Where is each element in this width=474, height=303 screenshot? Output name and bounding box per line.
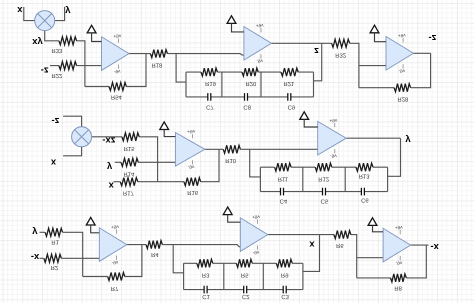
svg-text:C6: C6 [361, 197, 369, 204]
svg-text:-9v: -9v [253, 250, 260, 255]
svg-text:-x: -x [431, 242, 440, 253]
svg-text:x: x [309, 239, 315, 250]
svg-text:R5: R5 [241, 271, 249, 278]
svg-text:x: x [109, 180, 115, 191]
svg-text:R17: R17 [123, 190, 134, 197]
svg-text:R22: R22 [51, 72, 62, 79]
svg-text:R28: R28 [397, 96, 409, 103]
svg-text:R11: R11 [278, 176, 288, 183]
svg-text:-z: -z [41, 66, 49, 77]
svg-text:+9v: +9v [252, 215, 260, 220]
svg-text:R14: R14 [123, 171, 135, 178]
svg-text:x: x [51, 157, 57, 168]
svg-text:R2: R2 [51, 264, 59, 271]
svg-text:R21: R21 [283, 80, 294, 87]
svg-text:y: y [65, 6, 71, 17]
svg-text:+9v: +9v [187, 129, 195, 134]
svg-text:y: y [32, 227, 38, 238]
svg-text:-z: -z [428, 33, 436, 44]
svg-text:R33: R33 [51, 47, 63, 54]
svg-text:C8: C8 [243, 104, 251, 111]
svg-text:R12: R12 [318, 176, 329, 183]
svg-text:-9v: -9v [256, 59, 263, 64]
svg-text:R19: R19 [205, 80, 216, 87]
svg-text:y: y [405, 135, 411, 146]
svg-text:-9v: -9v [112, 260, 119, 265]
svg-text:C5: C5 [321, 198, 329, 205]
svg-text:R20: R20 [245, 80, 257, 87]
svg-text:z: z [314, 46, 319, 57]
svg-text:-9v: -9v [330, 154, 337, 159]
svg-text:C4: C4 [280, 198, 288, 205]
svg-text:C1: C1 [202, 293, 210, 300]
svg-text:C7: C7 [206, 104, 214, 111]
svg-text:+9v: +9v [330, 118, 338, 123]
svg-text:R18: R18 [151, 62, 163, 69]
svg-text:R13: R13 [359, 172, 371, 179]
svg-text:R1: R1 [51, 238, 59, 245]
svg-text:+9v: +9v [256, 23, 264, 28]
svg-text:+9v: +9v [111, 225, 119, 230]
svg-text:R32: R32 [335, 51, 346, 58]
svg-text:y: y [107, 162, 113, 173]
svg-text:R8: R8 [394, 285, 402, 292]
svg-text:R6: R6 [336, 242, 344, 249]
svg-text:-z: -z [51, 116, 59, 127]
svg-text:xy: xy [32, 37, 43, 48]
svg-text:+9v: +9v [398, 33, 406, 38]
svg-text:R9: R9 [281, 271, 289, 278]
svg-text:R15: R15 [124, 145, 136, 152]
svg-text:-9v: -9v [396, 260, 403, 265]
svg-text:-9v: -9v [114, 69, 121, 74]
svg-text:-x: -x [31, 252, 40, 263]
svg-text:R7: R7 [111, 285, 119, 292]
svg-text:C3: C3 [281, 293, 289, 300]
svg-text:-9v: -9v [188, 165, 195, 170]
svg-text:-xz: -xz [102, 135, 115, 146]
svg-text:x: x [17, 5, 23, 16]
svg-text:C9: C9 [288, 104, 296, 111]
svg-text:+9v: +9v [113, 34, 121, 39]
svg-text:R10: R10 [225, 157, 237, 164]
svg-text:R16: R16 [187, 189, 199, 196]
svg-text:R54: R54 [111, 93, 123, 100]
svg-text:C2: C2 [242, 293, 250, 300]
svg-text:-9v: -9v [398, 69, 405, 74]
svg-text:R4: R4 [151, 251, 159, 258]
svg-text:+9v: +9v [395, 225, 403, 230]
svg-text:R3: R3 [202, 271, 210, 278]
